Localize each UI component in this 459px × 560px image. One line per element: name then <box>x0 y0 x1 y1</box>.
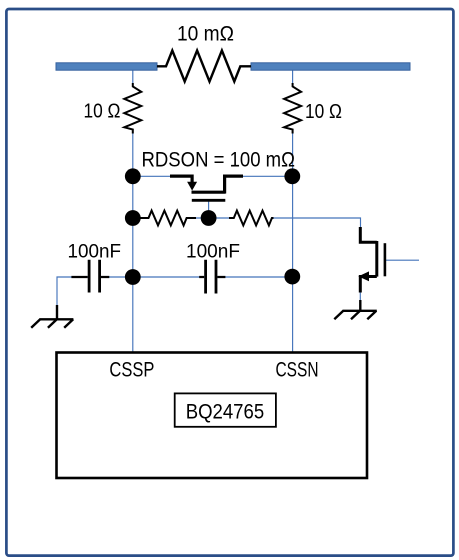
capacitor C1 plates <box>89 260 100 293</box>
wire: capacitor row from left ground <box>57 277 293 309</box>
svg-text:10 Ω: 10 Ω <box>84 101 121 123</box>
svg-text:100nF: 100nF <box>186 240 240 262</box>
node dot right y176 <box>284 168 300 184</box>
transistor Q2: gate bar <box>384 243 387 276</box>
wire: middle row y=218 to Q2 drain <box>133 218 361 228</box>
node dot left y218 <box>125 210 141 226</box>
ground left: bar <box>39 318 73 320</box>
node dot middle y218 <box>201 210 217 226</box>
node dot left y176 <box>125 168 141 184</box>
resistor R3 10 Ohm (right vertical) <box>284 83 301 134</box>
svg-text:10 Ω: 10 Ω <box>305 101 342 123</box>
transistor Q1: channel bar <box>192 191 226 194</box>
transistor Q2: source arrow <box>358 271 369 281</box>
svg-text:RDSON = 100 mΩ: RDSON = 100 mΩ <box>142 148 296 171</box>
IC box BQ24765 outline <box>57 353 368 479</box>
transistor Q2: channel bar <box>375 241 378 277</box>
node dot left y277 <box>125 269 141 285</box>
resistor R5 (middle row right) <box>229 211 274 226</box>
ground left: stub <box>56 305 58 319</box>
capacitor C2 plates <box>206 260 216 294</box>
capacitor C1 100nF leads <box>71 276 109 278</box>
transistor Q2: drain lead <box>360 227 377 242</box>
resistor R2 10 Ohm (left vertical) <box>124 83 141 134</box>
transistor Q1: drain lead <box>225 176 243 193</box>
bus bar right segment <box>251 63 410 70</box>
wire: Q1 gate stub <box>208 201 210 218</box>
resistor R4 (middle row left) <box>140 211 196 226</box>
wire: Q2 source to ground <box>359 292 361 305</box>
wire: right vertical CSSN net <box>292 66 294 352</box>
wire: left vertical CSSP net <box>132 66 134 352</box>
transistor Q1 RDSON MOSFET: source lead <box>170 176 192 183</box>
svg-text:100nF: 100nF <box>68 240 122 262</box>
wire: Q2 gate stub <box>385 259 419 261</box>
ground right: bar <box>343 310 377 312</box>
node dot right y277 <box>284 269 300 285</box>
inner box <box>175 393 276 426</box>
ground right: stub <box>359 300 361 311</box>
resistor R1 10 mOhm (horizontal, top) <box>157 51 251 82</box>
capacitor C2 100nF leads <box>199 276 225 278</box>
transistor Q1: source arrow <box>187 182 197 191</box>
wire: top node row y=176 <box>133 175 293 177</box>
transistor Q2: source lead <box>360 277 377 293</box>
svg-text:CSSP: CSSP <box>109 359 154 382</box>
svg-text:CSSN: CSSN <box>276 359 319 382</box>
transistor Q1: gate bar <box>192 199 226 202</box>
ground right: hatches <box>334 311 376 319</box>
svg-text:BQ24765: BQ24765 <box>186 401 265 424</box>
bus bar left segment <box>56 63 157 70</box>
svg-text:10 mΩ: 10 mΩ <box>177 23 234 46</box>
ground left: hatches <box>31 319 73 327</box>
